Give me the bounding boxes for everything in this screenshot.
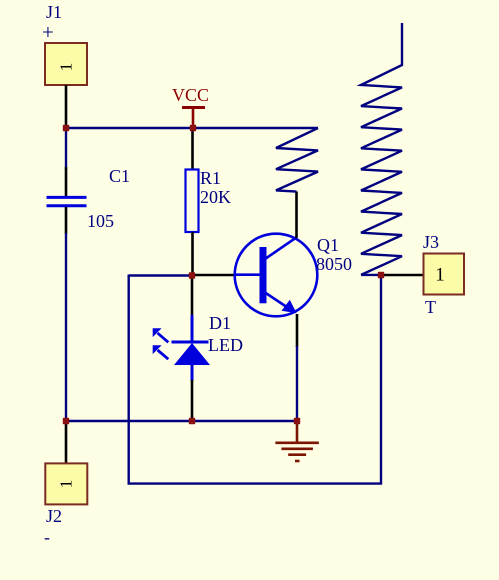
svg-text:D1: D1 [209,313,231,333]
capacitor C1 pin 1 [65,167,68,196]
svg-text:J2: J2 [46,506,62,526]
svg-text:1: 1 [57,480,76,489]
wire: secondary bottom to J3 node [361,274,381,276]
junction node: J1/C1 on VCC rail [63,125,69,131]
connector J3 [424,254,465,295]
ground [275,421,319,461]
capacitor C1 pin 2 [65,207,68,234]
wire: VCC rail horizontal [65,127,318,129]
connector J1 pin 1 [65,85,68,128]
svg-text:T: T [425,297,436,317]
svg-text:8050: 8050 [316,254,352,274]
LED D1 cathode pin [191,380,194,421]
inductor secondary winding [361,23,402,275]
transistor Q1 emitter pin [296,314,299,347]
svg-text:20K: 20K [200,187,231,207]
connector J1 [45,43,87,85]
junction node: J2 on bottom rail [63,418,69,424]
wire: left vertical from rail to C1 [65,128,67,169]
svg-text:+: + [42,20,54,44]
resistor R1 [186,170,199,233]
resistor R1 pin 1 [191,128,194,170]
transistor Q1 [234,234,317,317]
connector J3 pin 1 [381,274,424,277]
svg-text:LED: LED [208,335,243,355]
LED D1 anode pin [191,276,194,317]
junction node: VCC stem on rail [190,125,196,131]
capacitor C1 [47,197,87,205]
svg-text:-: - [44,527,50,547]
svg-text:1: 1 [57,63,76,72]
junction node: secondary/J3 [378,272,384,278]
wire: bottom rail horizontal [66,420,297,422]
resistor R1 pin 2 [191,232,194,276]
power VCC [172,85,209,128]
connector J2 pin 1 [65,421,68,464]
connector J2 [45,463,87,504]
svg-text:105: 105 [87,211,114,231]
junction node: LED cathode on bottom rail [189,418,195,424]
svg-text:J1: J1 [46,2,62,22]
inductor primary winding [276,128,318,192]
LED D1 [153,315,210,381]
transistor Q1 base pin [192,274,235,277]
junction node: base node [189,272,195,278]
wire: base node to loop left [129,274,192,276]
wire: emitter to ground node [296,346,298,421]
svg-text:R1: R1 [200,168,221,188]
transistor Q1 collector pin [295,192,298,239]
svg-text:1: 1 [435,265,445,286]
svg-text:C1: C1 [109,166,130,186]
junction node: emitter/ground [294,418,300,424]
wire: feedback loop (left, bottom, right) [129,274,381,484]
svg-text:Q1: Q1 [317,235,339,255]
wire: left vertical from C1 to bottom rail [65,233,67,421]
svg-text:J3: J3 [423,232,439,252]
svg-text:VCC: VCC [172,85,209,105]
